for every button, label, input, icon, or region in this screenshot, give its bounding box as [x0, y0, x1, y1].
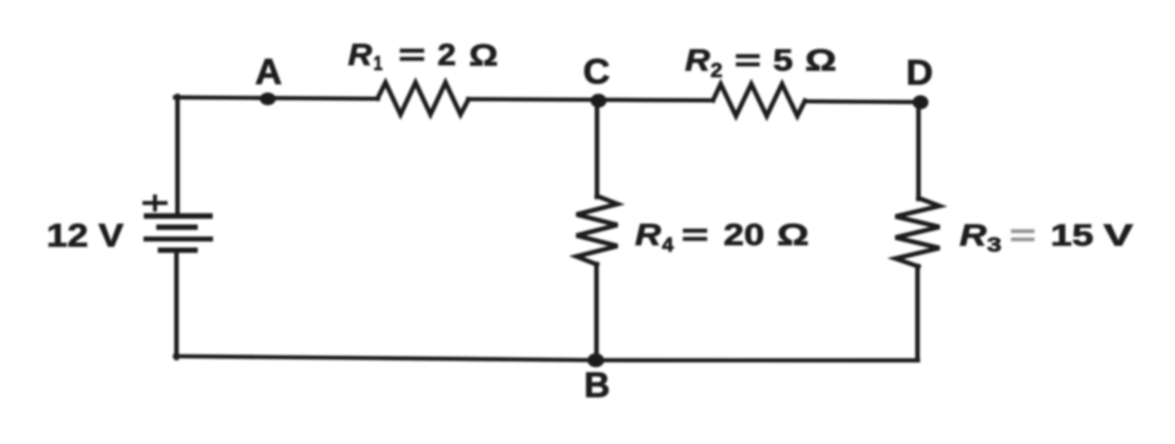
wire top horizontal: corner to A to R1	[175, 97, 378, 98]
svg-text:3: 3	[987, 235, 1002, 257]
wire left vertical lower (battery bottom to bottom wire)	[174, 250, 179, 358]
resistor R3 zigzag (vertical)	[896, 198, 940, 267]
wire left vertical upper (corner to battery top)	[175, 96, 180, 214]
svg-text:=: =	[735, 43, 762, 78]
wire top horizontal: R2 to D	[805, 99, 920, 104]
svg-text:V: V	[1104, 218, 1134, 253]
svg-text:R: R	[960, 218, 988, 253]
svg-text:12 V: 12 V	[47, 218, 125, 254]
svg-text:R: R	[348, 37, 373, 72]
svg-text:A: A	[255, 51, 282, 92]
node C junction dot	[591, 94, 607, 108]
wire bottom horizontal	[175, 356, 918, 360]
node A junction dot	[260, 93, 276, 106]
label R1 = 2 ohm	[348, 37, 498, 75]
wire right vertical lower (R3 to bottom wire)	[915, 266, 920, 360]
svg-text:=: =	[1010, 218, 1037, 253]
wire right vertical upper (D to R3)	[916, 101, 921, 199]
wire middle vertical upper (C to R4)	[595, 100, 600, 197]
wire middle vertical lower (R4 to B)	[594, 264, 599, 360]
resistor R1 zigzag	[378, 83, 469, 115]
label R2 = 5 ohm	[685, 43, 837, 83]
svg-text:1: 1	[374, 53, 383, 75]
svg-text:Ω: Ω	[469, 38, 498, 73]
battery V1 plate long lower	[146, 237, 211, 242]
svg-text:4: 4	[662, 235, 674, 257]
svg-text:2: 2	[438, 37, 457, 72]
svg-text:Ω: Ω	[805, 43, 837, 78]
svg-text:R: R	[635, 217, 662, 252]
svg-text:=: =	[399, 37, 426, 72]
node D junction dot	[913, 95, 929, 109]
battery V1 plate short bottom	[161, 247, 196, 252]
label R4 = 20 ohm	[635, 217, 809, 257]
wire top horizontal: R1 to C to R2	[468, 99, 713, 100]
battery V1 plate short upper	[159, 224, 195, 229]
svg-text:20: 20	[724, 217, 765, 252]
svg-text:C: C	[583, 53, 610, 92]
battery plus sign	[145, 197, 166, 210]
battery V1 12V plate long top	[147, 213, 211, 218]
svg-text:=: =	[682, 217, 709, 252]
label R3 = 15 V	[960, 218, 1134, 257]
svg-text:R: R	[685, 43, 711, 78]
svg-text:5: 5	[773, 43, 793, 78]
node B junction dot	[587, 353, 604, 367]
svg-text:Ω: Ω	[777, 217, 809, 252]
svg-text:D: D	[906, 54, 933, 93]
resistor R4 zigzag (vertical)	[577, 196, 618, 265]
svg-text:2: 2	[711, 60, 723, 82]
resistor R2 zigzag	[713, 84, 805, 116]
svg-text:B: B	[584, 366, 610, 405]
svg-text:15: 15	[1051, 218, 1094, 253]
